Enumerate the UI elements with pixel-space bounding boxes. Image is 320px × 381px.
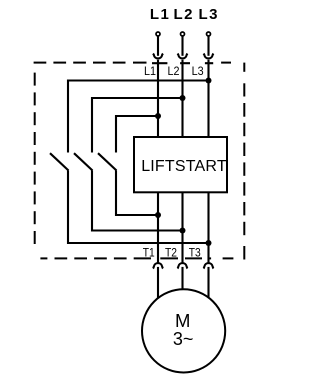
svg-text:T2: T2 <box>165 246 177 260</box>
svg-text:3~: 3~ <box>173 329 194 349</box>
svg-text:L2: L2 <box>168 64 180 78</box>
svg-text:L3: L3 <box>199 6 219 23</box>
svg-text:M: M <box>175 310 190 331</box>
svg-text:L1: L1 <box>144 64 156 78</box>
svg-text:L2: L2 <box>174 6 194 23</box>
svg-text:L3: L3 <box>192 64 204 78</box>
svg-text:T3: T3 <box>189 246 201 260</box>
svg-text:T1: T1 <box>143 246 155 260</box>
svg-text:L1: L1 <box>150 6 170 23</box>
svg-text:LIFTSTART: LIFTSTART <box>141 158 227 175</box>
